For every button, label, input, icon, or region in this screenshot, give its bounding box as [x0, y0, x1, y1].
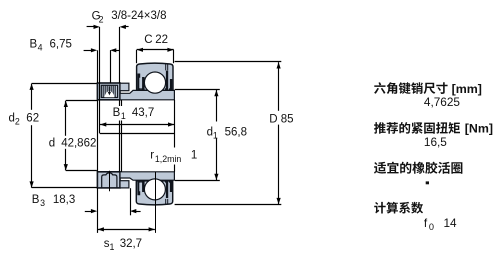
- s1 dimension line: [98, 229, 155, 231]
- collar left face extension: [97, 100, 99, 172]
- bearing outer ring (bottom half): [136, 181, 172, 205]
- ball (top half): [144, 72, 165, 93]
- value dash: [426, 181, 429, 184]
- lubrication slot (top outer ring): [166, 64, 168, 71]
- svg-text:[Nm]: [Nm]: [461, 122, 493, 136]
- extension line D bottom: [175, 204, 282, 206]
- svg-text:d: d: [49, 137, 55, 149]
- svg-text:C: C: [144, 34, 152, 46]
- svg-text:62: 62: [26, 113, 39, 125]
- B3 dimension leaders: [85, 211, 92, 213]
- collar lobe (top half): [120, 83, 129, 91]
- grub screw, hatched section (top collar): [101, 85, 117, 97]
- extension line B4 left: [97, 50, 99, 83]
- extension line d1 top: [175, 89, 220, 91]
- eccentric locking collar (top half): [97, 83, 120, 100]
- seal left (top half): [137, 74, 141, 91]
- svg-text:14: 14: [444, 216, 458, 230]
- svg-text:B: B: [113, 107, 121, 119]
- extension line below collar: [97, 188, 99, 233]
- bearing outer ring (top half): [137, 63, 173, 90]
- inner ring right face extension: [174, 100, 176, 172]
- svg-text:B: B: [32, 194, 40, 206]
- svg-text:6,75: 6,75: [50, 39, 72, 51]
- svg-text:3: 3: [40, 198, 45, 208]
- inner ring sleeve (bottom half): [120, 172, 174, 180]
- lubrication slot (bottom outer ring): [166, 199, 168, 205]
- heading: suitable rubber seat ring: [374, 162, 462, 174]
- extension line d1 bottom: [175, 180, 220, 182]
- svg-text:1: 1: [213, 131, 218, 141]
- svg-text:43,7: 43,7: [132, 107, 154, 119]
- svg-text:18,3: 18,3: [53, 194, 75, 206]
- C dimension line: [137, 49, 174, 51]
- extension line B4 right: [110, 50, 112, 83]
- svg-text:3/8-24×3/8: 3/8-24×3/8: [111, 10, 166, 22]
- svg-text:1,2min: 1,2min: [155, 154, 182, 164]
- extension line C right: [173, 50, 175, 63]
- svg-text:1: 1: [110, 242, 115, 252]
- hex socket symbol: [104, 91, 114, 97]
- extension line d bottom: [66, 170, 97, 172]
- heading: hex key size [mm]: [374, 82, 448, 94]
- inner ring sleeve (top half): [120, 90, 174, 99]
- svg-text:D: D: [269, 114, 277, 126]
- d2 dimension line: [31, 84, 33, 110]
- B4 dimension leaders: [84, 50, 92, 52]
- screw centerline (bottom): [109, 171, 111, 191]
- svg-text:16,5: 16,5: [424, 135, 447, 149]
- extension line C left: [136, 50, 138, 63]
- seal right (top half): [165, 71, 168, 91]
- G2 dimension leaders: [87, 26, 95, 28]
- svg-text:22: 22: [155, 34, 168, 46]
- svg-text:0: 0: [429, 222, 434, 232]
- svg-text:1: 1: [121, 111, 126, 121]
- heading: calculation factor: [374, 202, 423, 214]
- collar lobe (bottom half): [120, 181, 129, 188]
- svg-text:4,7625: 4,7625: [424, 95, 461, 109]
- seal right (bottom half): [165, 181, 168, 198]
- svg-text:r: r: [150, 150, 154, 162]
- extension line D top: [175, 61, 282, 63]
- extension line d2 bottom: [32, 187, 97, 189]
- D dimension line: [278, 62, 280, 111]
- extension line B3 right: [130, 188, 132, 215]
- svg-text:1: 1: [191, 150, 197, 162]
- text bg r12min: [148, 148, 197, 165]
- extension line d2 top: [32, 83, 97, 85]
- ball (bottom half): [144, 179, 165, 200]
- text bg B1: [111, 106, 148, 121]
- extension line G2 left: [99, 27, 101, 100]
- d dimension line: [65, 101, 67, 136]
- svg-text:f: f: [424, 216, 428, 230]
- vertical line pair between halves: [99, 100, 101, 133]
- svg-text:2: 2: [99, 14, 104, 24]
- bearing centerline (bottom, s1 extension): [155, 172, 157, 233]
- svg-text:4: 4: [38, 43, 43, 53]
- B1 dimension line: [100, 124, 174, 126]
- seal left (bottom half): [137, 181, 141, 195]
- svg-text:[mm]: [mm]: [448, 82, 482, 96]
- svg-text:32,7: 32,7: [120, 238, 142, 250]
- d1 dimension line: [216, 90, 218, 122]
- heading: recommended tightening torque [Nm]: [374, 122, 460, 134]
- eccentric locking collar (bottom half): [97, 172, 120, 188]
- svg-text:85: 85: [281, 114, 294, 126]
- grub screw outline (bottom collar): [102, 173, 117, 188]
- extension line d top: [66, 100, 98, 102]
- svg-text:B: B: [30, 39, 38, 51]
- bore silhouette line: [100, 133, 174, 135]
- extension line G2 right: [119, 27, 121, 83]
- svg-text:2: 2: [15, 117, 20, 127]
- svg-text:42,862: 42,862: [61, 137, 96, 149]
- svg-text:56,8: 56,8: [225, 127, 247, 139]
